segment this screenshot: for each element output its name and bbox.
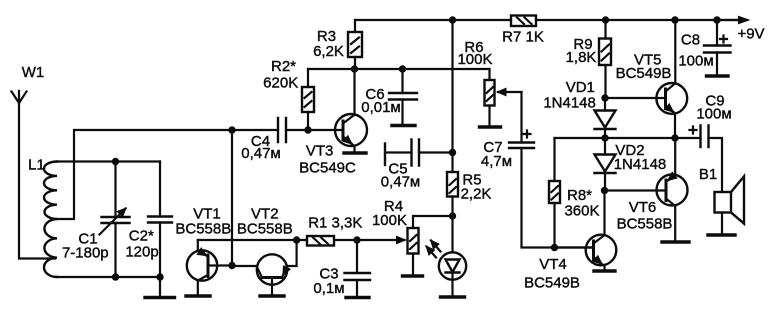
diode VD2 (595, 138, 667, 191)
junction rail x605 (602, 16, 609, 23)
svg-text:BC549B: BC549B (524, 275, 580, 292)
resistor R5 (447, 172, 491, 253)
capacitor C6 (361, 69, 417, 125)
svg-text:R1 3,3K: R1 3,3K (308, 215, 362, 232)
svg-text:1N4148: 1N4148 (543, 95, 596, 112)
junction push-pull emitters (671, 134, 678, 141)
capacitor C2 (125, 162, 172, 278)
inductor L1 (28, 157, 57, 278)
svg-text:100м: 100м (678, 53, 713, 70)
ground below VT4 (594, 269, 615, 272)
capacitor C9 (675, 93, 732, 193)
svg-text:VT3: VT3 (306, 143, 334, 160)
resistor R1 (307, 215, 362, 246)
top supply rail (355, 19, 742, 21)
junction rail x675 (671, 16, 678, 23)
capacitor C4 (241, 118, 286, 162)
svg-text:1N4148: 1N4148 (614, 156, 667, 173)
svg-text:1,8K: 1,8K (566, 49, 597, 66)
junction VD2 cathode / VT4 collector / VT6 base (601, 187, 608, 194)
svg-text:6,2K: 6,2K (313, 43, 344, 60)
ground below VT6 (662, 240, 689, 243)
wire L1 top to C1/C2 (57, 160, 160, 162)
svg-text:0,01м: 0,01м (361, 99, 401, 116)
capacitor C5 (381, 140, 453, 191)
svg-text:R2*: R2* (271, 58, 296, 75)
svg-text:100K: 100K (372, 212, 407, 229)
wire R1 to R4 node (334, 239, 357, 241)
resistor R9 (566, 20, 611, 98)
svg-text:4,7м: 4,7м (481, 153, 512, 170)
wire VT1 base node to C4 node (231, 130, 233, 266)
center vertical line +9V to R5/LED (451, 20, 453, 172)
svg-text:120p: 120p (125, 244, 158, 261)
junction VD1/VD2 node (601, 134, 608, 141)
variable capacitor C1 (62, 162, 130, 278)
transistor VT6 (617, 138, 688, 241)
resistor R7 (502, 16, 544, 46)
junction VT1 base / VT2 collector (228, 262, 235, 269)
resistor R2* (263, 58, 314, 130)
junction node at C4 wire (228, 126, 235, 133)
junction R3 bottom / VT3 collector (351, 65, 358, 72)
svg-text:L1: L1 (28, 157, 45, 174)
svg-text:0,47м: 0,47м (241, 145, 281, 162)
svg-text:VT6: VT6 (629, 199, 657, 216)
svg-text:0,47м: 0,47м (381, 174, 421, 191)
svg-text:R7 1K: R7 1K (502, 29, 544, 46)
ground below R6 (480, 125, 501, 128)
wire C5 node to R5 handled above; junction C5 (449, 149, 456, 156)
junction rail x453 (449, 16, 456, 23)
junction R2 bottom (304, 126, 311, 133)
svg-text:C2*: C2* (129, 228, 154, 245)
capacitor C8 (678, 20, 730, 75)
junction C1 bottom (112, 273, 119, 280)
junction C6 top (399, 65, 406, 72)
wiper arrow to R4 (357, 239, 405, 241)
potentiometer R6 (457, 39, 521, 126)
wire antenna to L1 tap (19, 103, 55, 259)
junction R9 bottom / VT5 base / VD1 anode (601, 94, 608, 101)
transistor VT3 (299, 69, 367, 177)
ground below VT3 (344, 151, 366, 154)
ground below LED (441, 295, 465, 298)
junction rail x717 (713, 16, 720, 23)
svg-text:620K: 620K (263, 75, 298, 92)
diode VD1 (543, 79, 615, 138)
ground below B1 (708, 233, 735, 236)
svg-text:C8: C8 (681, 32, 700, 49)
wire VT4 collector riser (603, 191, 605, 236)
wire VT5 base (605, 97, 666, 99)
svg-text:BC558B: BC558B (617, 215, 673, 232)
svg-text:BC549C: BC549C (299, 160, 356, 177)
svg-text:B1: B1 (699, 166, 717, 183)
wire VT6 base (605, 189, 667, 191)
transistor VT2 (232, 206, 297, 295)
transistor VT1 (175, 206, 232, 296)
junction VT2 emitter (293, 236, 300, 243)
svg-text:BC558B: BC558B (237, 221, 293, 238)
wire R2 top rail (y68.5) (308, 68, 490, 70)
svg-text:BC549B: BC549B (616, 65, 672, 82)
junction R4 top (449, 212, 456, 219)
transistor VT5 (616, 20, 688, 138)
ground below VT1 (186, 294, 210, 297)
svg-text:VD1: VD1 (566, 79, 595, 96)
svg-text:2,2K: 2,2K (461, 186, 492, 203)
LED indicator (427, 241, 467, 297)
antenna W1 (12, 64, 45, 103)
svg-text:100K: 100K (457, 51, 492, 68)
ground below VT2 (260, 294, 284, 297)
ground below C2 (145, 296, 175, 299)
svg-text:100м: 100м (696, 106, 731, 123)
ground below C6 (392, 124, 415, 127)
svg-text:VT4: VT4 (539, 256, 567, 273)
junction C3 top (353, 236, 360, 243)
wire C4 to VT3 base (286, 129, 343, 131)
junction C2 bottom (156, 273, 163, 280)
ground below C3 (346, 296, 369, 299)
svg-text:7-180p: 7-180p (62, 245, 109, 262)
svg-text:R8*: R8* (567, 187, 592, 204)
svg-text:+9V: +9V (737, 26, 764, 43)
capacitor C3 (313, 240, 370, 297)
svg-text:W1: W1 (22, 64, 45, 81)
wire push-pull node (y138) (555, 137, 676, 139)
ground below C8 (707, 74, 729, 77)
speaker B1 (699, 166, 744, 234)
resistor R8* (549, 138, 600, 248)
junction C1 top (112, 158, 119, 165)
svg-text:0,1м: 0,1м (313, 280, 344, 297)
wire L1 tap to C4/VT1 node (vertical riser x74) (57, 130, 278, 219)
wire VT1/VT2 emitters to R1 (198, 239, 307, 241)
+9V arrow (717, 16, 765, 43)
capacitor C7 (481, 92, 594, 248)
svg-text:360K: 360K (564, 203, 599, 220)
ground below R4 (403, 274, 423, 277)
potentiometer R4 (372, 198, 453, 275)
wire L1 bottom to C1/C2 bottom (57, 276, 160, 278)
svg-text:BC558B: BC558B (175, 221, 231, 238)
transistor VT4 (524, 235, 616, 292)
junction R8 bottom / VT4 base (551, 244, 558, 251)
resistor R3 (313, 20, 362, 69)
wire C2 to ground (159, 277, 161, 296)
